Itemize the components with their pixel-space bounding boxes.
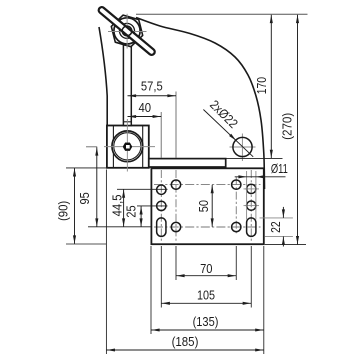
extension line: B-right column down bbox=[235, 246, 237, 280]
extension line: B-left column down bbox=[175, 246, 177, 280]
hole B-left row2 Ø11 bbox=[171, 222, 180, 231]
svg-text:50: 50 bbox=[196, 200, 211, 212]
leader line 2xØ22 bbox=[203, 110, 253, 157]
extension line: A-left column down bbox=[160, 246, 162, 308]
pivot cam inner ring bbox=[114, 133, 141, 160]
svg-text:(90): (90) bbox=[55, 201, 70, 221]
extension line: A-right column down bbox=[250, 246, 252, 308]
hole A-right row2 Ø11 bbox=[247, 201, 256, 210]
extension line: slot bottom to right bbox=[265, 235, 293, 237]
extension line: plate right edge down bbox=[263, 246, 265, 354]
hole B-left row1 Ø11 bbox=[171, 180, 180, 189]
svg-text:22: 22 bbox=[268, 221, 283, 233]
clamping bar bbox=[149, 159, 226, 167]
pivot hub repaint (above centerlines) bbox=[123, 143, 132, 151]
centerline: knob vertical axis bbox=[126, 14, 128, 49]
centerline: hole column B-left x=176 bbox=[175, 170, 177, 243]
centerline: Ø22 circle vertical bbox=[241, 134, 243, 162]
centerline: pivot horizontal axis bbox=[86, 146, 97, 148]
extension line: plate left edge down bbox=[150, 246, 152, 334]
knob hub circle (over bar) bbox=[122, 26, 132, 36]
knob inner circle bbox=[120, 23, 135, 38]
dimension 40 bbox=[160, 112, 162, 158]
centerline: hole row B bottom / slot row y=227 bbox=[154, 226, 261, 228]
extension line: plate bottom to left bbox=[66, 243, 107, 245]
lever arm bbox=[123, 45, 131, 126]
svg-text:95: 95 bbox=[77, 192, 92, 204]
svg-text:70: 70 bbox=[200, 261, 212, 276]
centerline tick: A-right hole row2 bbox=[244, 205, 260, 207]
centerline: arm/pivot vertical axis bbox=[126, 119, 128, 172]
svg-text:170: 170 bbox=[254, 77, 269, 94]
centerline: hole column A-right x=251.25 bbox=[250, 170, 252, 243]
centerline tick: A-right hole row1 bbox=[244, 188, 260, 190]
svg-text:44,5: 44,5 bbox=[109, 194, 124, 216]
dimension 25 bbox=[140, 206, 142, 227]
centerline: hole column A-left x=161.3 bbox=[160, 170, 162, 243]
lever arm foot line bbox=[123, 121, 131, 123]
svg-text:25: 25 bbox=[123, 205, 138, 217]
svg-text:40: 40 bbox=[139, 100, 152, 115]
knob outer circle bbox=[114, 18, 140, 44]
extension line: top of knob (y ref for 170/270) bbox=[136, 13, 308, 15]
dimension 70 bbox=[176, 275, 236, 277]
centerline: pivot horizontal over cam bbox=[104, 146, 155, 148]
dimension Ø11 (slot width) bbox=[246, 171, 248, 220]
extension line: block left edge down bbox=[105, 170, 107, 355]
extension line: hole row2 to left bbox=[137, 205, 168, 207]
dimension 57,5 bbox=[175, 92, 177, 159]
extension line: hole row1 to left bbox=[117, 188, 168, 190]
svg-text:105: 105 bbox=[197, 287, 215, 302]
slot A-right (Ø11 x 22 obround) bbox=[247, 218, 256, 237]
centerline: hole column B-right x=236.25 bbox=[235, 177, 237, 235]
svg-text:Ø11: Ø11 bbox=[271, 161, 288, 176]
pivot cam outer circle bbox=[112, 131, 143, 162]
pivot block outer housing bbox=[107, 126, 149, 168]
centerline: hole row B top y=184.6 bbox=[154, 184, 261, 186]
extension line: slot row to left bbox=[88, 226, 151, 228]
dimension 170 bbox=[270, 15, 272, 159]
hole B-right row1 Ø11 bbox=[232, 180, 241, 189]
svg-text:(135): (135) bbox=[193, 314, 219, 329]
pivot block inner left wall bbox=[112, 126, 114, 168]
dimension (135) bbox=[151, 329, 264, 331]
dimension (185) bbox=[106, 349, 263, 351]
hole A-left row1 Ø11 bbox=[157, 185, 166, 194]
dimension 44,5 bbox=[123, 189, 125, 227]
hole B-right row2 Ø11 bbox=[232, 222, 241, 231]
dimension 95 bbox=[96, 147, 98, 227]
dimension 22 (arrows outside) bbox=[282, 207, 284, 218]
extension line: bar top to right bbox=[226, 157, 283, 159]
extension line: block bottom to left bbox=[66, 167, 107, 169]
pivot hub square hole bbox=[126, 145, 130, 149]
pivot block inner right wall bbox=[142, 126, 144, 168]
svg-text:(185): (185) bbox=[172, 334, 199, 349]
svg-text:57,5: 57,5 bbox=[141, 78, 163, 93]
pivot hub: filled hex nut bbox=[123, 143, 132, 151]
svg-text:(270): (270) bbox=[279, 113, 294, 140]
swing arc of handle bbox=[136, 18, 265, 190]
centerline: Ø22 circle horizontal bbox=[230, 146, 256, 148]
base plate outline bbox=[151, 168, 263, 244]
hole A-left row2 Ø11 bbox=[157, 201, 166, 210]
dimension 105 bbox=[161, 302, 251, 304]
hand knob outer hex profile bbox=[111, 15, 142, 47]
extension line: plate bottom to right bbox=[265, 244, 306, 246]
dimension (90) bbox=[74, 168, 76, 244]
hole A-right row1 Ø11 bbox=[247, 184, 256, 193]
slot A-left (Ø11 x 22 obround) bbox=[157, 218, 166, 237]
extension line: slot top to right bbox=[260, 217, 293, 219]
handle bar (capsule) bbox=[102, 10, 152, 52]
dimension 50 bbox=[211, 185, 213, 227]
centerline: knob horizontal axis bbox=[108, 31, 147, 33]
left body silhouette edge bbox=[99, 27, 107, 126]
dimension (270) bbox=[297, 15, 299, 245]
hole 2xØ22 bbox=[233, 137, 252, 156]
